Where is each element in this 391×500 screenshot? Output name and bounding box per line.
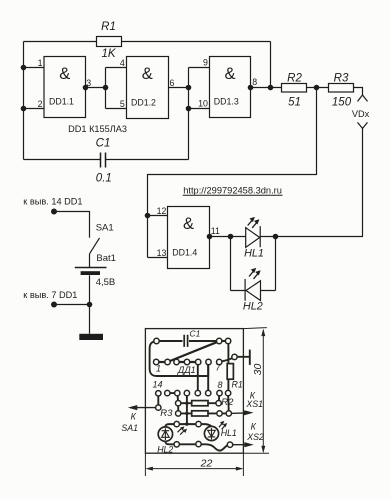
svg-text:К: К xyxy=(251,421,257,431)
LED HL2 emission arrowheads xyxy=(251,268,261,276)
pcb trace bar pins12 xyxy=(156,361,167,363)
wire DD1.4 output xyxy=(210,236,276,238)
svg-text:1: 1 xyxy=(38,58,43,68)
wire SA1 Bat1 branch xyxy=(54,212,90,334)
pcb pad right xyxy=(232,354,237,359)
svg-text:http://299792458.3dn.ru: http://299792458.3dn.ru xyxy=(183,185,282,195)
wire DD1.4 input stubs xyxy=(148,216,168,258)
pcb trace bottom curve xyxy=(165,441,230,450)
svg-text:150: 150 xyxy=(332,97,352,109)
svg-text:к выв. 7 DD1: к выв. 7 DD1 xyxy=(23,290,77,300)
pcb trace big loop xyxy=(150,341,209,376)
switch SA1 blade xyxy=(90,238,100,254)
pcb trace diagonal xyxy=(168,341,220,362)
svg-text:&: & xyxy=(142,65,153,83)
gate DD1.3 xyxy=(210,57,251,118)
pcb trace bar pins345 xyxy=(177,361,199,363)
pcb arrowhead XS2 xyxy=(244,442,254,447)
battery Bat1 xyxy=(75,267,107,269)
pcb trace L pin13 xyxy=(167,393,178,403)
svg-text:&: & xyxy=(183,215,194,233)
terminal dot pin7 xyxy=(51,302,57,308)
pcb pads DIP upper row xyxy=(154,359,159,364)
LED HL2 emission arrows xyxy=(249,269,260,279)
svg-text:SA1: SA1 xyxy=(121,423,138,433)
svg-text:HL2: HL2 xyxy=(243,301,263,313)
pcb arrowhead SA1 xyxy=(128,405,138,410)
svg-text:VDx: VDx xyxy=(352,109,370,119)
svg-text:8: 8 xyxy=(252,77,257,87)
pcb arrow to XS2 xyxy=(230,444,251,446)
svg-text:2: 2 xyxy=(38,99,43,109)
svg-text:DD1.1: DD1.1 xyxy=(49,97,74,107)
pcb trace left column xyxy=(177,403,179,413)
resistor R2 xyxy=(282,84,307,93)
pcb pads R3 row xyxy=(176,411,181,416)
svg-text:&: & xyxy=(59,65,70,83)
pcb pads LED trace xyxy=(174,421,179,426)
svg-text:51: 51 xyxy=(288,97,301,109)
svg-text:XS1: XS1 xyxy=(245,399,263,409)
wire R2 to R3 xyxy=(307,87,329,89)
svg-text:DD1.4: DD1.4 xyxy=(172,247,197,257)
jack XS top chevron xyxy=(358,95,368,101)
terminal dot pin14 xyxy=(51,209,57,215)
svg-text:R2: R2 xyxy=(221,397,234,408)
svg-text:30: 30 xyxy=(252,364,264,376)
pcb LED HL2 arrows xyxy=(178,428,185,435)
svg-text:R1: R1 xyxy=(101,21,116,33)
svg-text:DD1.3: DD1.3 xyxy=(214,97,239,107)
resistor R1 xyxy=(97,37,122,47)
gate DD1.2 xyxy=(127,57,169,119)
pcb arrowhead XS1 xyxy=(244,410,254,415)
svg-text:1K: 1K xyxy=(101,48,116,60)
LED HL2 xyxy=(245,279,260,301)
url underline xyxy=(183,194,283,196)
svg-text:&: & xyxy=(224,65,235,83)
pcb pads R2 row xyxy=(176,401,181,406)
svg-text:6: 6 xyxy=(170,78,175,88)
pcb trace vertical pin6 xyxy=(207,362,209,393)
pcb LED HL1 arrowheads xyxy=(220,421,227,427)
pcb LED HL2 diode xyxy=(162,428,170,440)
wire R3 to jack xyxy=(354,88,363,96)
wire left vertical xyxy=(23,42,25,160)
capacitor C1 xyxy=(101,153,106,168)
pcb pads C1 row xyxy=(154,338,159,343)
pcb capacitor C1 plates xyxy=(184,335,187,347)
svg-text:DD1 К155ЛА3: DD1 К155ЛА3 xyxy=(68,124,127,134)
svg-text:R3: R3 xyxy=(334,72,349,84)
pcb trace LED top xyxy=(165,424,211,427)
pcb T stub bar xyxy=(249,350,251,365)
pcb resistor R1 trace xyxy=(227,341,229,393)
pcb LED HL2 body xyxy=(158,427,172,441)
wire HL2 branch xyxy=(231,237,276,291)
pcb LED HL1 arrows xyxy=(219,422,226,429)
pcb trace R1 to XS1 xyxy=(227,393,230,413)
svg-text:3: 3 xyxy=(86,78,91,88)
svg-text:5: 5 xyxy=(120,99,125,109)
pcb trace vertical pin5 xyxy=(197,362,199,393)
battery Bat1 negative plate xyxy=(81,271,100,275)
pcb LED HL2 arrowheads xyxy=(180,426,187,433)
svg-text:9: 9 xyxy=(203,58,208,68)
svg-text:13: 13 xyxy=(157,248,167,258)
svg-text:DD1.2: DD1.2 xyxy=(131,97,156,107)
wire DD1.3 input bracket xyxy=(189,68,210,160)
pcb arrow to XS1 xyxy=(229,412,251,415)
svg-text:Bat1: Bat1 xyxy=(96,253,116,264)
pcb pad SA1 xyxy=(156,405,161,410)
pcb trace to T stub xyxy=(219,357,250,362)
resistor R3 xyxy=(329,84,354,93)
pcb pads DIP lower row xyxy=(156,391,161,396)
svg-text:ДД1: ДД1 xyxy=(177,365,196,375)
pcb trace central vertical xyxy=(186,393,188,424)
svg-text:10: 10 xyxy=(198,99,208,109)
pcb junction dots xyxy=(185,402,188,405)
pcb resistor R2 body xyxy=(192,401,208,406)
LED HL1 emission arrowheads xyxy=(250,217,260,225)
LED HL1 xyxy=(246,226,261,247)
junction dots xyxy=(21,65,27,71)
svg-text:C1: C1 xyxy=(96,137,111,149)
pcb resistor R3 body xyxy=(192,411,208,416)
svg-text:11: 11 xyxy=(211,226,220,236)
wire DD1.1 pins xyxy=(24,68,106,109)
svg-text:К: К xyxy=(131,411,137,421)
svg-text:12: 12 xyxy=(157,206,167,216)
svg-text:R1: R1 xyxy=(232,379,243,389)
svg-text:HL1: HL1 xyxy=(244,248,264,260)
pcb trace pin14 xyxy=(157,393,159,407)
wire top feedback xyxy=(24,42,271,88)
wire feedback to DD1.4 xyxy=(148,88,317,258)
svg-text:HL1: HL1 xyxy=(221,428,237,438)
pcb dim22 arrowheads xyxy=(145,467,243,471)
ground bar xyxy=(79,334,103,340)
svg-text:22: 22 xyxy=(200,458,213,470)
wire right vertical to LEDs xyxy=(276,128,363,236)
pcb dim30 extension lines xyxy=(243,328,269,454)
pcb trace R2 row xyxy=(178,402,218,404)
pcb resistor R1 body xyxy=(227,364,233,380)
wire DD1.2 output xyxy=(169,87,189,89)
svg-text:8: 8 xyxy=(218,380,223,390)
pcb dim30 line xyxy=(262,331,264,452)
svg-text:R3: R3 xyxy=(160,408,173,419)
jack XS bottom chevron xyxy=(358,122,368,128)
svg-text:XS2: XS2 xyxy=(246,432,264,442)
pcb dim22 extension lines xyxy=(145,453,243,476)
pcb arrow to SA1 xyxy=(131,407,158,409)
gate DD1.1 xyxy=(44,57,86,118)
svg-text:HL2: HL2 xyxy=(157,444,173,454)
svg-text:к выв. 14 DD1: к выв. 14 DD1 xyxy=(23,196,82,206)
LED HL1 emission arrows xyxy=(248,218,259,228)
gate DD1.4 xyxy=(168,207,210,269)
svg-text:1: 1 xyxy=(156,363,161,373)
pcb dim30 arrowheads xyxy=(261,329,265,454)
svg-text:SA1: SA1 xyxy=(96,222,114,233)
wire C1 run xyxy=(24,159,189,161)
pcb trace R3 row xyxy=(178,412,229,414)
pcb LED HL1 diode xyxy=(208,428,216,440)
pcb pads bottom curve xyxy=(174,442,179,447)
svg-text:4,5В: 4,5В xyxy=(96,277,116,288)
pcb trace pin8 down xyxy=(218,393,221,403)
wire DD1.2 input bracket xyxy=(106,68,127,109)
pcb trace C1 row xyxy=(157,340,229,342)
svg-text:4: 4 xyxy=(120,58,125,68)
pcb LED HL1 body xyxy=(204,426,218,440)
pcb board outline xyxy=(145,329,243,454)
wire DD1.3 output xyxy=(251,87,282,89)
svg-text:R2: R2 xyxy=(287,72,302,84)
svg-text:0.1: 0.1 xyxy=(96,173,112,185)
svg-text:С1: С1 xyxy=(190,329,201,339)
pcb dim22 line xyxy=(148,468,242,470)
svg-text:14: 14 xyxy=(153,380,163,390)
